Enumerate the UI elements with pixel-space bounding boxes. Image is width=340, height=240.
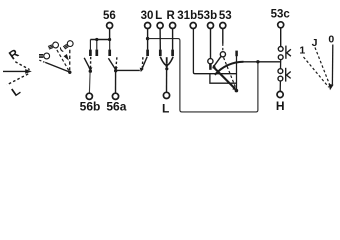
wire pole2 to turn pivot (116, 69, 140, 71)
node turn-left arrow (140, 68, 144, 72)
terminal L (157, 23, 163, 29)
box wiper contact bridge (210, 74, 237, 84)
wire 53 drop (222, 29, 224, 44)
terminal 53b (208, 23, 214, 29)
svg-text:1: 1 (299, 44, 305, 56)
terminal 53c (278, 22, 284, 28)
node dimmer pivot (68, 71, 71, 74)
wire 53b drop (210, 29, 212, 59)
switch arm turn-left dashed (141, 57, 144, 68)
wire dashed S3-to-pivot (69, 50, 71, 71)
wire dashed lever-to-L (7, 74, 28, 85)
wire dashed position1 (304, 57, 329, 87)
wire 53c drop (280, 28, 282, 46)
switch arm wiper dashed (224, 58, 236, 89)
switch arm trident left flank (160, 57, 165, 65)
switch arm trident right flank (168, 57, 173, 65)
svg-text:56: 56 (103, 10, 116, 22)
wire 56 bus (90, 39, 109, 41)
node contact 53 (220, 52, 225, 57)
node wiper pivot arrow (232, 86, 236, 90)
switch arm turn-left solid (141, 57, 147, 71)
switch arm wiper vertical (235, 51, 238, 57)
node junction 30 (146, 37, 149, 40)
svg-text:30: 30 (141, 10, 154, 22)
wire dashed lever-to-R (15, 62, 29, 70)
wire horn to H (279, 81, 281, 91)
svg-text:L: L (155, 10, 162, 22)
wire R drop (172, 29, 174, 50)
switch arm pole1 solid (84, 58, 90, 70)
terminal 56a (112, 93, 118, 99)
svg-text:0: 0 (328, 33, 334, 45)
contact stub 1 (89, 40, 91, 50)
terminal H (277, 91, 283, 97)
contact stub 2 (96, 40, 98, 50)
arrow on S2 line (64, 54, 69, 61)
node junction horn feed (256, 60, 259, 63)
terminal 30 (145, 23, 151, 29)
contact horn bar and arrow (285, 68, 287, 82)
arc wiper sector (215, 62, 244, 75)
svg-text:31b: 31b (177, 10, 197, 22)
switch arm wiper thick (213, 67, 235, 89)
svg-text:53c: 53c (271, 9, 291, 21)
lamp symbol low beam (S1) (39, 53, 50, 59)
svg-text:L: L (162, 102, 169, 116)
node horn contact upper (278, 69, 283, 74)
wire solid S1-to-pivot (45, 62, 69, 72)
lamp symbol high beam (S2) (47, 41, 59, 50)
terminal 31b (190, 23, 196, 29)
node washer contact lower (278, 55, 283, 60)
contact stub 3 (109, 40, 111, 50)
wire 56 drop (109, 29, 111, 40)
lamp symbol headlight flash (S3) (59, 40, 74, 53)
wire 30 to frame and around to horn (148, 39, 258, 112)
switch arm pole2 solid (108, 58, 115, 69)
wire washer to horn pair (280, 60, 282, 69)
wire to 56a (115, 71, 117, 93)
wire solid position0 (331, 45, 333, 85)
switch arm pole1 dashed (90, 57, 92, 68)
wire dashed S1 tail (39, 60, 44, 62)
svg-text:J: J (312, 37, 318, 49)
switch arm wiper alt solid (213, 57, 221, 68)
wire L drop (159, 29, 161, 50)
wire dashed S2-to-pivot (57, 50, 69, 71)
wire to 56b (88, 72, 91, 93)
svg-text:L: L (9, 84, 23, 100)
node trident pivot (165, 67, 168, 70)
node contact 53b (208, 59, 213, 64)
terminal 56b (86, 93, 92, 99)
wire arc to horn column (242, 61, 281, 63)
svg-text:R: R (6, 46, 21, 63)
contact stub 53b (209, 64, 212, 70)
node pivot pole1 arrow (88, 67, 92, 71)
svg-text:R: R (167, 10, 176, 22)
switch arm pole2 dashed (116, 57, 117, 68)
node horn contact lower (278, 76, 283, 81)
node washer contact upper (278, 47, 283, 52)
svg-text:53: 53 (219, 10, 232, 22)
svg-text:53b: 53b (197, 10, 217, 22)
terminal L bottom (163, 92, 169, 98)
contact washer bar and arrow (285, 46, 287, 59)
terminal 56 (107, 23, 113, 29)
node junction (108, 38, 111, 41)
wire 31b drop and across (193, 29, 236, 74)
terminal R (170, 23, 176, 29)
wire 30 drop (147, 29, 149, 50)
switch arm trident center (166, 57, 168, 64)
node junction (95, 38, 98, 41)
svg-text:56a: 56a (106, 99, 126, 113)
svg-text:H: H (276, 99, 285, 113)
wire to bottom L (166, 69, 168, 92)
terminal 53 (220, 23, 226, 29)
node rotary arrow (329, 84, 334, 90)
node pivot pole2 arrow (114, 67, 118, 71)
wire lever neutral arrow (3, 70, 27, 72)
svg-text:56b: 56b (80, 99, 101, 113)
wire dashed positionJ (315, 48, 330, 87)
